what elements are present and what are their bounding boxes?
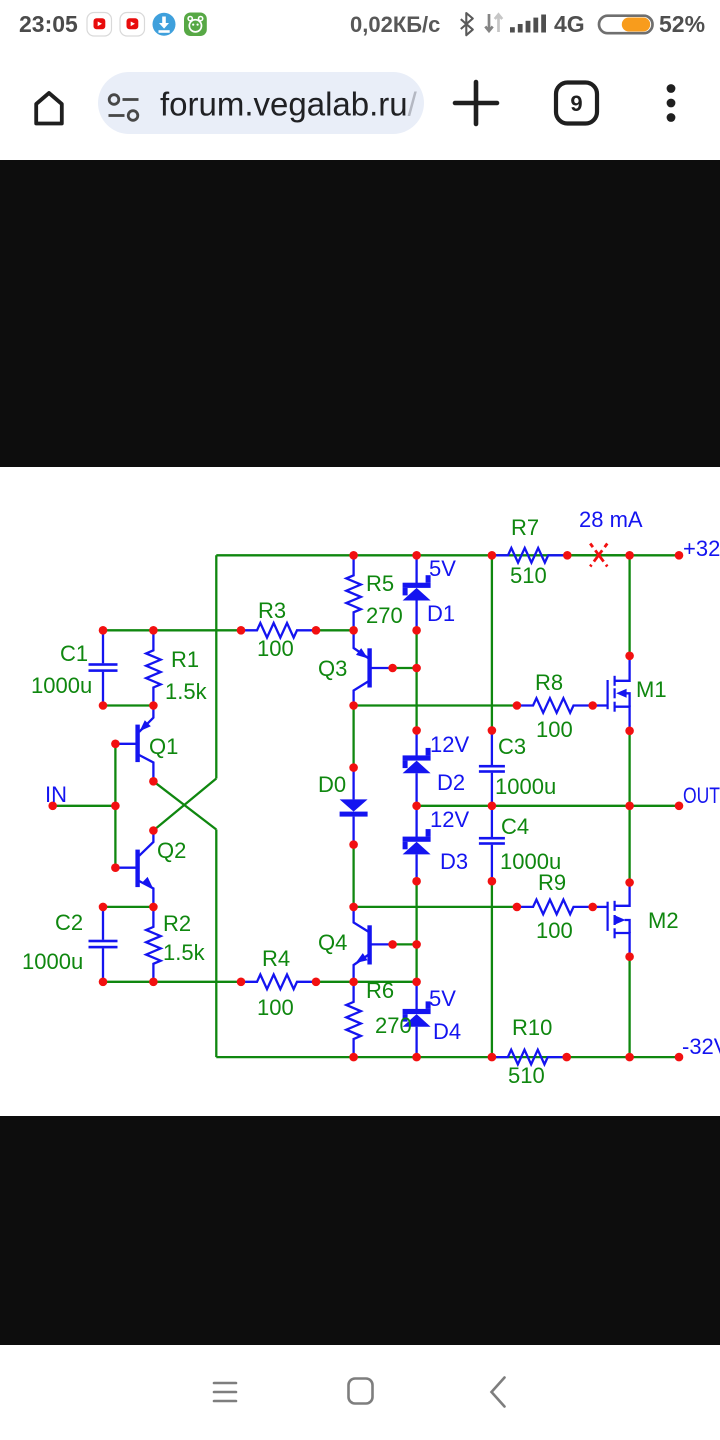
svg-text:100: 100 <box>536 918 573 943</box>
svg-text:D2: D2 <box>437 770 465 795</box>
svg-text:28 mA: 28 mA <box>579 507 643 532</box>
svg-text:R1: R1 <box>171 647 199 672</box>
svg-text:1000u: 1000u <box>22 949 83 974</box>
svg-text:52%: 52% <box>659 11 705 37</box>
svg-text:forum.vegalab.ru/: forum.vegalab.ru/ <box>160 85 418 122</box>
svg-text:D1: D1 <box>427 601 455 626</box>
svg-text:OUT: OUT <box>683 783 720 808</box>
svg-text:5V: 5V <box>429 556 456 581</box>
svg-text:12V: 12V <box>430 807 469 832</box>
svg-text:R7: R7 <box>511 515 539 540</box>
svg-text:R2: R2 <box>163 911 191 936</box>
svg-text:D3: D3 <box>440 849 468 874</box>
svg-text:9: 9 <box>570 91 582 116</box>
svg-text:D4: D4 <box>433 1019 461 1044</box>
svg-text:D0: D0 <box>318 772 346 797</box>
svg-text:M1: M1 <box>636 677 667 702</box>
svg-text:100: 100 <box>257 636 294 661</box>
svg-text:-32V: -32V <box>682 1034 720 1059</box>
svg-text:R3: R3 <box>258 598 286 623</box>
svg-text:4G: 4G <box>554 11 585 37</box>
svg-text:1.5k: 1.5k <box>163 940 206 965</box>
svg-text:1000u: 1000u <box>495 774 556 799</box>
svg-text:Q2: Q2 <box>157 838 186 863</box>
svg-text:C2: C2 <box>55 910 83 935</box>
svg-text:1.5k: 1.5k <box>165 679 208 704</box>
svg-text:R8: R8 <box>535 670 563 695</box>
svg-text:100: 100 <box>257 995 294 1020</box>
svg-text:IN: IN <box>45 782 67 807</box>
svg-text:R6: R6 <box>366 978 394 1003</box>
svg-text:Q4: Q4 <box>318 930 347 955</box>
svg-text:270: 270 <box>366 603 403 628</box>
svg-text:1000u: 1000u <box>31 673 92 698</box>
svg-text:270: 270 <box>375 1013 412 1038</box>
svg-text:1000u: 1000u <box>500 849 561 874</box>
svg-text:R4: R4 <box>262 946 290 971</box>
svg-text:23:05: 23:05 <box>19 11 78 37</box>
svg-text:R10: R10 <box>512 1015 552 1040</box>
svg-text:0,02КБ/с: 0,02КБ/с <box>350 12 440 37</box>
svg-text:C3: C3 <box>498 734 526 759</box>
svg-text:Q1: Q1 <box>149 734 178 759</box>
svg-text:+32V: +32V <box>683 536 720 561</box>
svg-text:100: 100 <box>536 717 573 742</box>
svg-text:M2: M2 <box>648 908 679 933</box>
svg-text:R5: R5 <box>366 571 394 596</box>
svg-text:Q3: Q3 <box>318 656 347 681</box>
svg-text:C4: C4 <box>501 814 529 839</box>
svg-text:12V: 12V <box>430 732 469 757</box>
svg-text:510: 510 <box>508 1063 545 1088</box>
svg-text:510: 510 <box>510 563 547 588</box>
svg-text:5V: 5V <box>429 986 456 1011</box>
svg-text:C1: C1 <box>60 641 88 666</box>
